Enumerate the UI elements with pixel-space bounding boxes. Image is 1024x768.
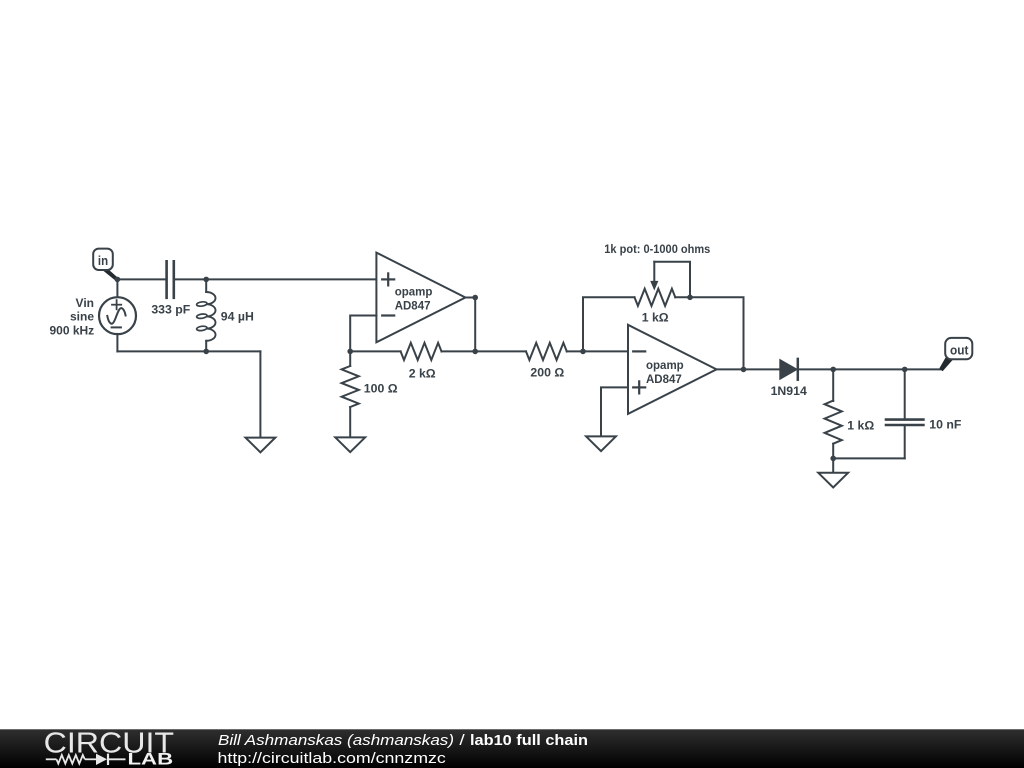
wire U2 output to node I	[717, 368, 744, 370]
svg-text:200 Ω: 200 Ω	[530, 366, 564, 380]
wire diode to node J	[799, 368, 833, 370]
ground G4	[818, 473, 848, 488]
svg-text:100 Ω: 100 Ω	[364, 381, 398, 395]
wire pot to feedback drop	[690, 297, 744, 369]
capacitor C1 333 pF	[151, 261, 190, 316]
svg-text:LAB: LAB	[128, 751, 174, 768]
node F junction dot	[347, 349, 353, 355]
wire top net: capacitor to op-amp U1 + input	[175, 278, 377, 280]
svg-text:1k pot: 0-1000 ohms: 1k pot: 0-1000 ohms	[604, 244, 710, 256]
ground G2	[335, 437, 365, 452]
svg-text:AD847: AD847	[395, 300, 431, 312]
node I junction dot	[741, 367, 747, 373]
resistor R5 1 kOhm	[825, 369, 875, 458]
resistor R1 2 kOhm	[350, 343, 475, 381]
wire node I to diode	[744, 368, 780, 370]
node flag in	[93, 249, 118, 282]
potentiometer R4 1 kOhm	[604, 244, 710, 325]
wire RC bottom net	[833, 457, 905, 459]
wire top net: node A to capacitor	[117, 278, 166, 280]
svg-text:1 kΩ: 1 kΩ	[847, 418, 874, 432]
wire bottom net: source to inductor to ground stub	[117, 350, 260, 352]
svg-text:opamp: opamp	[646, 360, 684, 372]
wire node G to U2 inverting input	[583, 350, 628, 352]
resistor R2 100 Ohm	[342, 351, 398, 437]
diode D1 1N914	[771, 359, 807, 398]
svg-text:out: out	[950, 343, 969, 358]
node B junction dot (cap / inductor)	[203, 277, 209, 283]
node K junction dot	[902, 367, 908, 373]
wire ground stub left	[259, 351, 261, 437]
wire node D down to feedback net	[474, 298, 476, 352]
node D junction dot	[472, 295, 478, 301]
resistor R3 200 Ohm	[526, 343, 583, 380]
capacitor C2 10 nF	[886, 369, 962, 458]
op-amp U1 opamp AD847	[376, 253, 465, 343]
wire node K to out flag	[905, 368, 941, 370]
svg-text:in: in	[98, 253, 108, 268]
wire node J to node K	[833, 368, 905, 370]
wire U1 output to node D	[465, 297, 475, 299]
node C junction dot (inductor bottom)	[203, 349, 209, 355]
svg-text:2 kΩ: 2 kΩ	[409, 366, 436, 380]
voltage source V1 Vin sine 900 kHz	[49, 279, 136, 351]
wire U2 non-inverting input to ground	[601, 387, 628, 436]
node J junction dot	[830, 367, 836, 373]
svg-text:AD847: AD847	[646, 374, 682, 386]
node flag out	[939, 338, 972, 371]
ground G1	[246, 438, 276, 453]
svg-text:333 pF: 333 pF	[151, 303, 190, 317]
svg-text:1N914: 1N914	[771, 384, 807, 398]
ground G3	[586, 436, 616, 451]
wire node G up to potentiometer left terminal	[583, 297, 635, 351]
svg-text:900 kHz: 900 kHz	[49, 323, 94, 337]
logo resistor-diode glyph	[46, 754, 126, 765]
node A junction dot	[115, 277, 121, 283]
node E junction dot	[472, 349, 478, 355]
svg-text:1 kΩ: 1 kΩ	[642, 311, 669, 325]
svg-text:opamp: opamp	[395, 287, 433, 299]
op-amp U2 opamp AD847	[628, 325, 717, 414]
svg-text:Bill Ashmanskas (ashmanskas) /: Bill Ashmanskas (ashmanskas) / lab10 ful…	[218, 732, 588, 749]
node G junction dot	[580, 349, 586, 355]
svg-text:94 µH: 94 µH	[221, 309, 254, 323]
svg-text:sine: sine	[70, 310, 94, 324]
wire feedback net to R3	[475, 350, 526, 352]
node H junction dot (pot right/wiper)	[687, 295, 693, 301]
wire node L to ground	[832, 458, 834, 472]
node L junction dot	[830, 456, 836, 462]
svg-text:10 nF: 10 nF	[929, 417, 962, 431]
svg-text:Vin: Vin	[76, 296, 94, 310]
wire U1 inverting input to feedback net	[350, 316, 376, 352]
svg-text:http://circuitlab.com/cnnzmzc: http://circuitlab.com/cnnzmzc	[218, 750, 447, 767]
inductor L1 94 uH	[196, 279, 254, 351]
